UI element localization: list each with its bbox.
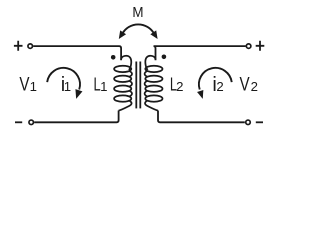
coil entry hook (145, 56, 155, 70)
label V2 (240, 73, 258, 95)
wire bottom-right (158, 111, 245, 123)
coil loop (114, 76, 131, 82)
terminal top-left (28, 44, 33, 49)
plus sign V1 (14, 41, 23, 51)
coil entry hook (121, 56, 131, 70)
svg-text:2: 2 (251, 79, 258, 94)
svg-text:1: 1 (30, 79, 37, 94)
svg-text:2: 2 (176, 79, 183, 94)
svg-text:V: V (19, 73, 30, 95)
svg-text:V: V (240, 73, 251, 95)
wire bottom-left (34, 111, 118, 123)
coil turn connector (130, 71, 132, 77)
wire top-right (154, 46, 246, 60)
coil turn connector (145, 71, 147, 77)
arrowhead M right (150, 30, 157, 39)
current arrow i2 (199, 68, 232, 90)
minus sign V1 (15, 121, 22, 123)
coil turn connector (130, 81, 132, 87)
minus sign V2 (256, 121, 263, 123)
terminal top-right (246, 44, 251, 49)
coil loop (145, 66, 162, 72)
polarity dot L2 (162, 55, 167, 60)
plus sign V2 (256, 41, 265, 51)
coil exit hook (119, 101, 132, 111)
core line 2 (139, 62, 141, 109)
label L1 (94, 75, 108, 95)
label i2 (212, 74, 223, 96)
wire top-left (33, 46, 121, 60)
svg-text:M: M (132, 4, 143, 21)
terminal bottom-left (29, 120, 34, 125)
arrowhead i2 (197, 90, 203, 99)
label i1 (61, 74, 71, 96)
arrowhead i1 (75, 89, 82, 99)
polarity dot L1 (111, 55, 116, 60)
coil turn connector (145, 81, 147, 87)
coil loop (145, 86, 162, 92)
coil exit hook (145, 101, 158, 111)
current arrow i1 (47, 68, 80, 90)
coil loop (145, 76, 162, 82)
mutual coupling arc M (123, 24, 154, 32)
coil loop (145, 95, 162, 101)
label L2 (170, 75, 184, 95)
coil loop (114, 95, 131, 101)
arrowhead M left (119, 30, 126, 39)
svg-text:1: 1 (64, 79, 71, 94)
coil turn connector (145, 91, 147, 97)
coil turn connector (130, 91, 132, 97)
coil loop (114, 66, 131, 72)
terminal bottom-right (246, 120, 251, 125)
svg-text:2: 2 (216, 79, 223, 94)
svg-text:1: 1 (100, 79, 107, 94)
coil loop (114, 86, 131, 92)
label V1 (19, 73, 37, 95)
core line 1 (135, 62, 137, 109)
